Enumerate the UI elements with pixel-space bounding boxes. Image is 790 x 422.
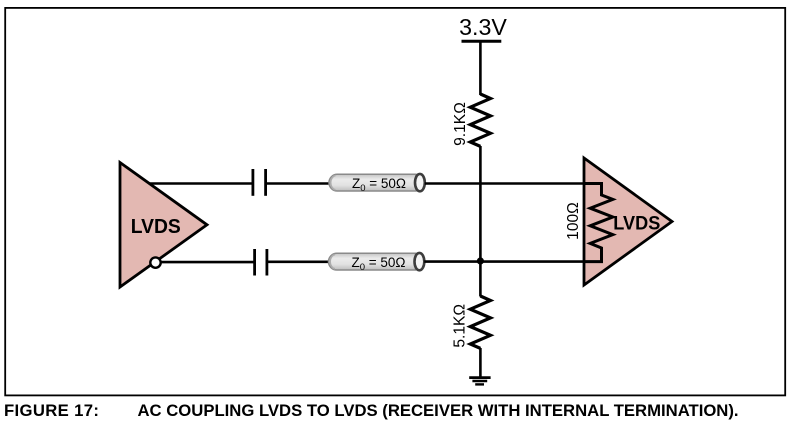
- ground: [469, 378, 490, 385]
- svg-text:LVDS: LVDS: [131, 215, 181, 238]
- svg-text:AC COUPLING LVDS TO LVDS (RECE: AC COUPLING LVDS TO LVDS (RECEIVER WITH …: [138, 401, 739, 420]
- LVDS driver U1 triangle: [120, 163, 207, 288]
- wire driver out- from bubble: [161, 261, 254, 264]
- wire driver out+ to C1: [149, 182, 252, 185]
- power rail bar: [462, 40, 502, 43]
- figure caption: [4, 401, 739, 420]
- svg-text:LVDS: LVDS: [613, 213, 660, 235]
- svg-text:FIGURE 17:: FIGURE 17:: [4, 401, 99, 420]
- inversion bubble: [150, 257, 160, 267]
- wire T2 to receiver in-: [424, 260, 585, 263]
- resistor R2 5.1K zigzag: [470, 296, 490, 348]
- capacitor C2: [255, 249, 267, 276]
- wire rail to R1: [479, 41, 482, 95]
- wire R1 to junction to R2: [479, 146, 482, 297]
- wire C2 to T2: [268, 260, 330, 263]
- svg-text:100Ω: 100Ω: [565, 202, 582, 240]
- capacitor C1: [253, 169, 266, 196]
- wire T1 to receiver in+: [425, 182, 585, 185]
- transmission line T2 Z0=50: [328, 253, 424, 273]
- wire R2 to ground: [479, 348, 482, 378]
- termination resistor 100ohm internal: [584, 184, 613, 262]
- junction dot node: [477, 257, 484, 264]
- svg-text:3.3V: 3.3V: [459, 14, 507, 40]
- transmission line T1 Z0=50: [329, 174, 425, 194]
- svg-text:5.1KΩ: 5.1KΩ: [452, 304, 469, 348]
- wire C1 to T1: [267, 182, 331, 185]
- LVDS receiver U2 triangle: [584, 158, 672, 285]
- resistor R1 9.1K zigzag: [470, 94, 490, 146]
- svg-text:9.1KΩ: 9.1KΩ: [452, 102, 469, 146]
